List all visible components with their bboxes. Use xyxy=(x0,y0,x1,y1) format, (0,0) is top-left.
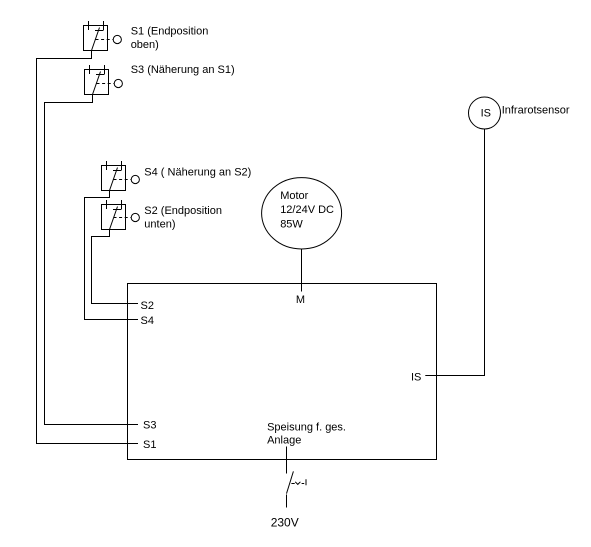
S2 actuator dashed link xyxy=(114,217,131,219)
S4 actuator dashed link xyxy=(114,179,131,181)
svg-text:Anlage: Anlage xyxy=(267,435,301,447)
mains switch lever xyxy=(287,471,294,493)
svg-text:S3 (Näherung an S1): S3 (Näherung an S1) xyxy=(131,64,235,76)
S3 body box xyxy=(85,70,109,95)
S1 terminal pin right xyxy=(103,21,105,30)
svg-text:Motor: Motor xyxy=(280,190,308,202)
svg-text:IS: IS xyxy=(411,371,421,383)
svg-text:S1 (Endposition: S1 (Endposition xyxy=(131,25,209,37)
svg-text:230V: 230V xyxy=(271,515,299,529)
mains switch (230V) xyxy=(287,471,307,493)
wire S1 to controller input S1 xyxy=(37,51,139,444)
limit switch S4 xyxy=(102,161,140,191)
limit switch S2 xyxy=(102,200,140,230)
svg-text:unten): unten) xyxy=(144,219,175,231)
S3 actuator dashed link xyxy=(97,83,114,85)
S2 terminal pin right xyxy=(121,200,123,209)
S4 lever xyxy=(110,168,118,191)
wire controller to mains switch xyxy=(286,447,288,474)
motor circle xyxy=(262,178,342,249)
svg-text:S4 ( Näherung an S2): S4 ( Näherung an S2) xyxy=(144,167,251,179)
controller box U1 xyxy=(128,284,437,460)
mains switch dashed link xyxy=(291,483,294,485)
S2 contact bar xyxy=(113,209,122,211)
svg-text:S1: S1 xyxy=(143,439,156,451)
motor M1 xyxy=(262,178,342,249)
mains switch dash 2 xyxy=(302,483,305,485)
svg-text:S2: S2 xyxy=(141,300,154,312)
S3 actuator roller xyxy=(114,79,122,87)
S1 actuator dashed link xyxy=(96,39,113,41)
S2 actuator roller xyxy=(131,213,139,221)
S2 body box xyxy=(102,205,126,230)
S1 terminal pin left xyxy=(88,21,90,30)
svg-text:S3: S3 xyxy=(143,420,156,432)
S2 terminal pin left xyxy=(106,200,108,209)
wire IS sensor to controller terminal IS xyxy=(425,129,484,376)
S4 actuator roller xyxy=(131,175,139,183)
infrared sensor IS xyxy=(469,97,501,129)
wire S2 to controller input S2 xyxy=(92,230,139,304)
S4 body box xyxy=(102,166,126,191)
wire S3 to controller input S3 xyxy=(45,95,139,425)
S3 terminal pin left xyxy=(89,65,91,74)
svg-text:oben): oben) xyxy=(131,39,159,51)
S1 lever xyxy=(92,28,100,51)
limit switch S1 xyxy=(84,21,122,51)
svg-text:S2 (Endposition: S2 (Endposition xyxy=(144,205,222,217)
svg-text:IS: IS xyxy=(481,108,491,120)
svg-text:Infrarotsensor: Infrarotsensor xyxy=(502,105,570,117)
S4 terminal pin left xyxy=(106,161,108,170)
svg-text:S4: S4 xyxy=(141,315,154,327)
svg-text:M: M xyxy=(296,294,305,306)
wire motor M to controller terminal M xyxy=(301,249,303,292)
mains switch tilde xyxy=(295,482,300,485)
S2 lever xyxy=(110,207,118,230)
limit switch S3 xyxy=(85,65,123,95)
mains switch bar xyxy=(305,479,307,485)
S3 lever xyxy=(93,72,101,95)
IS circle xyxy=(469,97,501,129)
S1 body box xyxy=(84,26,108,51)
S1 contact bar xyxy=(95,30,104,32)
S4 terminal pin right xyxy=(121,161,123,170)
S1 actuator roller xyxy=(113,35,121,43)
S3 contact bar xyxy=(96,74,105,76)
wire mains switch to 230V xyxy=(286,495,288,508)
S4 contact bar xyxy=(113,170,122,172)
wire S4 to controller input S4 xyxy=(85,191,139,320)
svg-text:12/24V DC: 12/24V DC xyxy=(280,204,334,216)
S3 terminal pin right xyxy=(104,65,106,74)
svg-text:Speisung f. ges.: Speisung f. ges. xyxy=(267,421,346,433)
svg-text:85W: 85W xyxy=(280,218,303,230)
